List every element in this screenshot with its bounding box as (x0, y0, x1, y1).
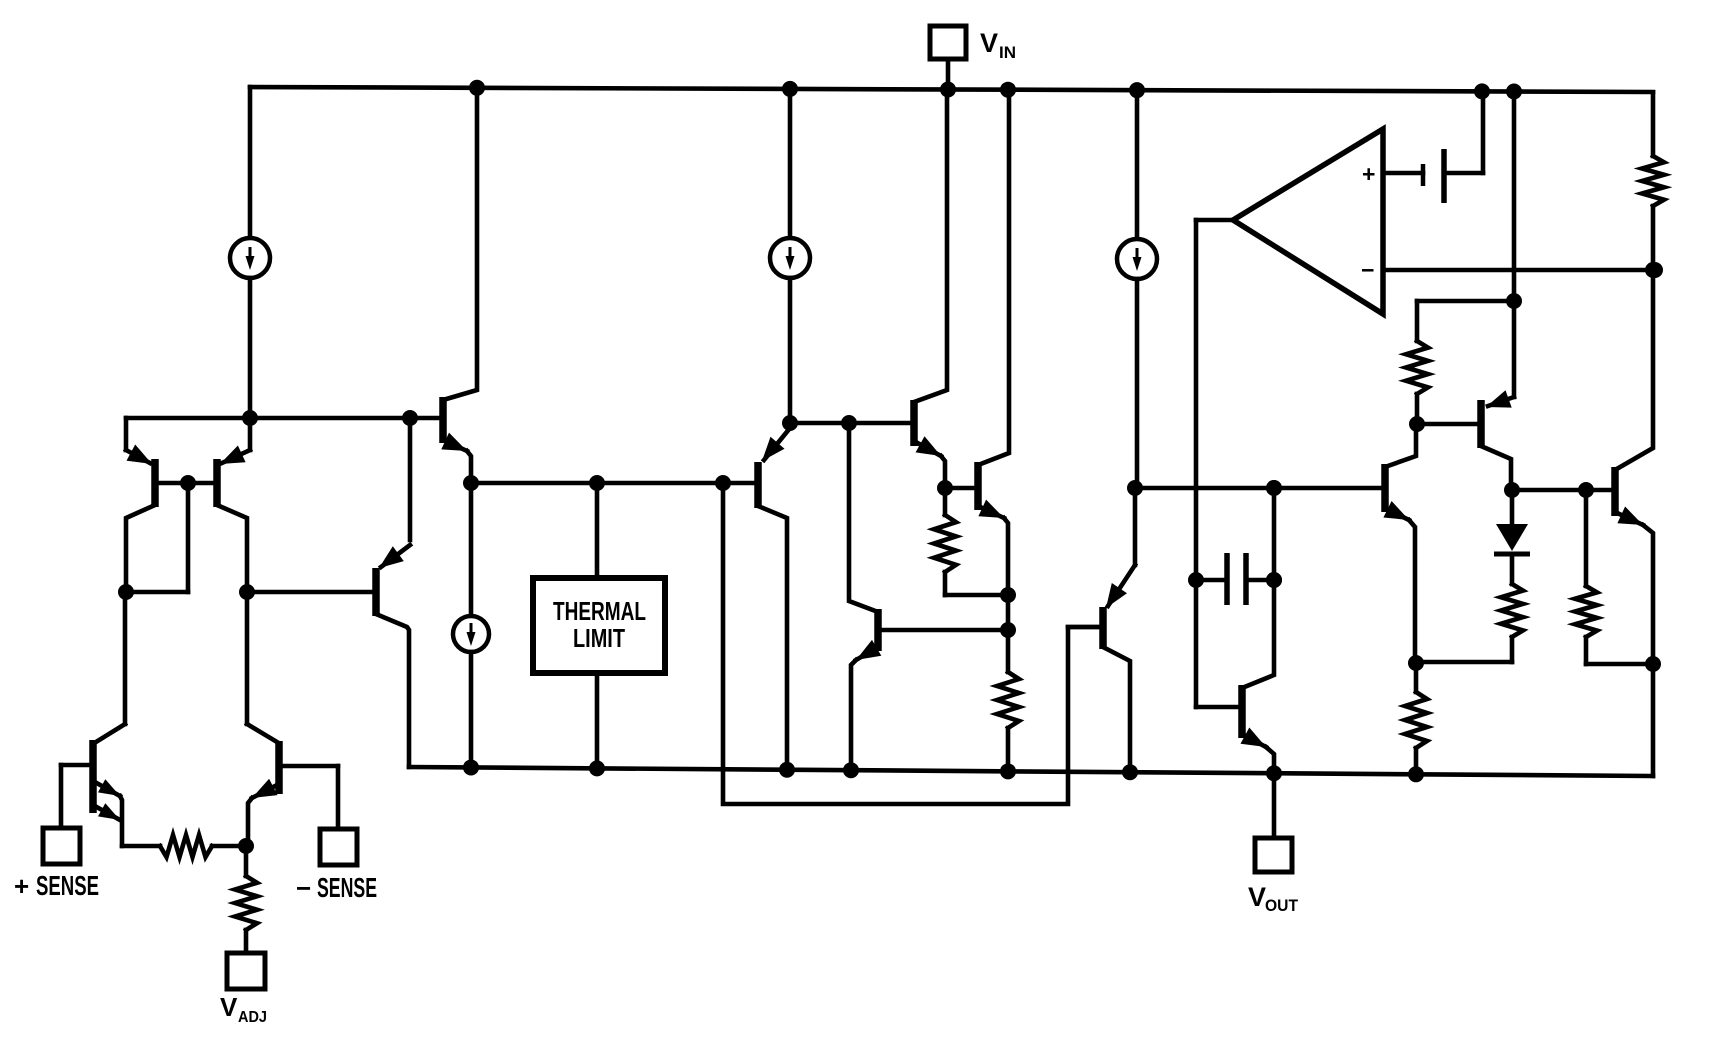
svg-text:SENSE: SENSE (317, 872, 377, 903)
svg-text:SENSE: SENSE (36, 870, 99, 901)
svg-text:V: V (220, 992, 238, 1022)
svg-text:IN: IN (999, 43, 1016, 62)
svg-text:−: − (296, 873, 311, 903)
svg-text:V: V (980, 28, 998, 58)
svg-text:LIMIT: LIMIT (573, 623, 625, 653)
svg-text:−: − (1361, 257, 1374, 283)
svg-text:+: + (14, 871, 29, 901)
svg-text:OUT: OUT (1265, 896, 1299, 915)
svg-text:+: + (1362, 161, 1375, 187)
svg-text:ADJ: ADJ (238, 1009, 267, 1026)
svg-text:THERMAL: THERMAL (553, 596, 646, 626)
svg-text:V: V (1248, 882, 1266, 912)
